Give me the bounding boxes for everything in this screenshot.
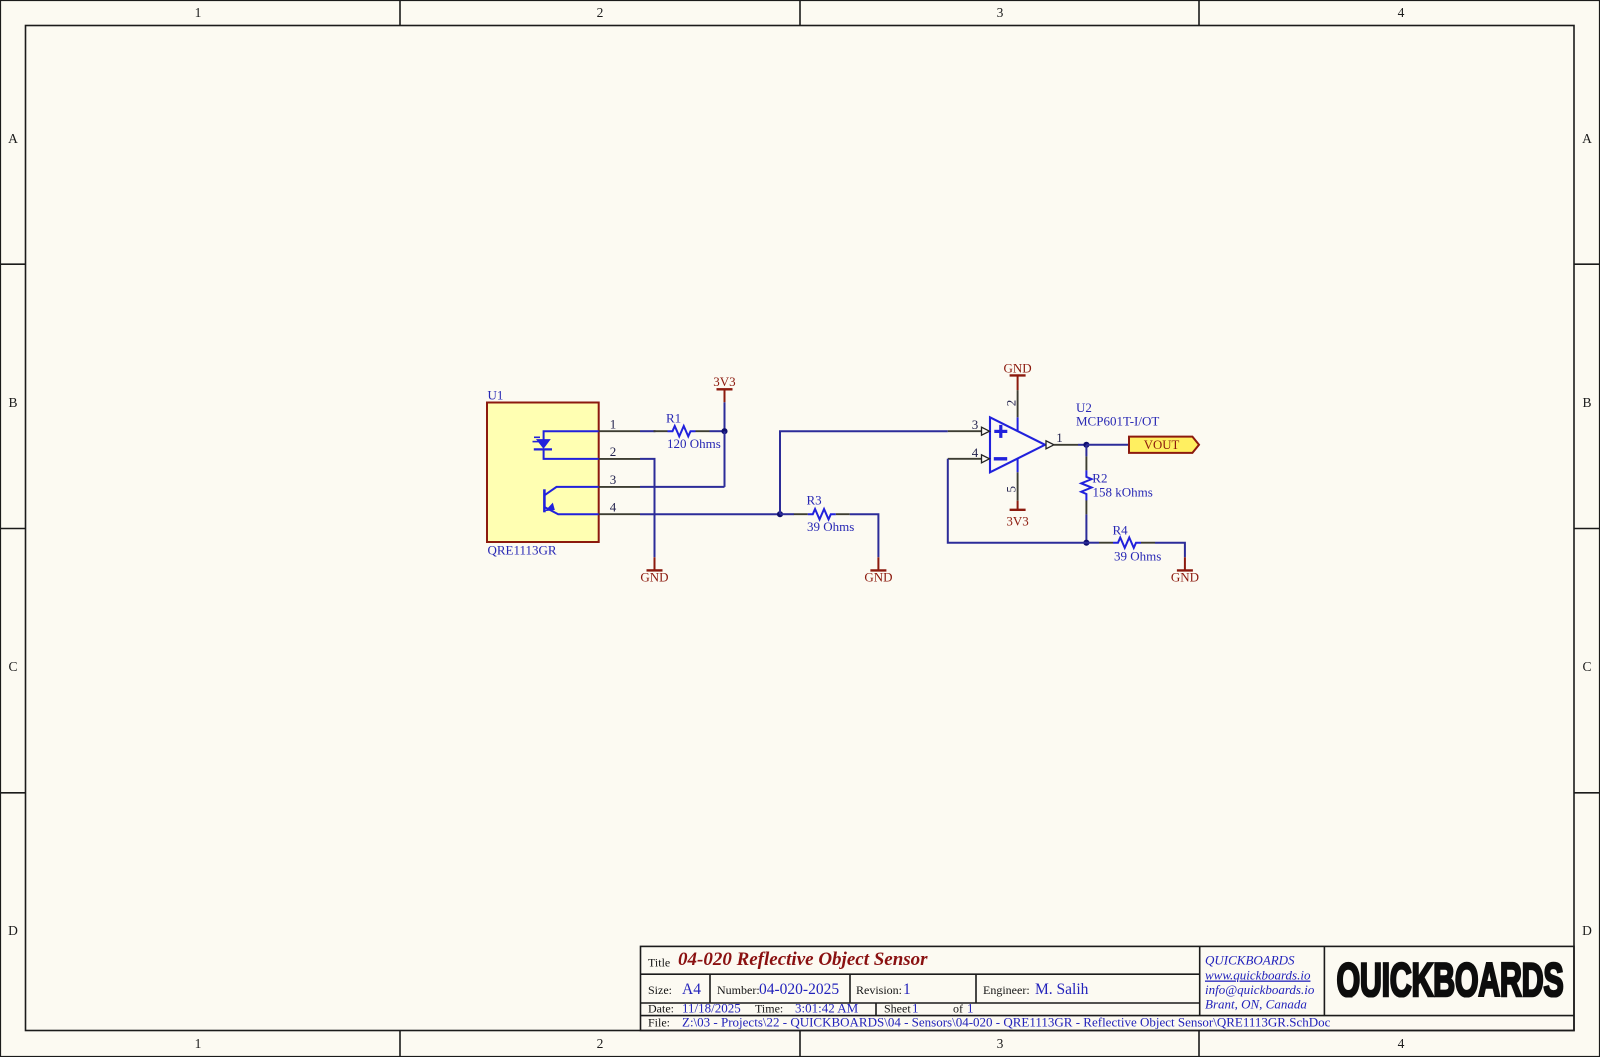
svg-text:U1: U1 — [488, 388, 504, 403]
svg-text:Time:: Time: — [755, 1002, 783, 1016]
junction node pin4/R3 — [777, 511, 783, 517]
op-amp U2 — [990, 417, 1045, 472]
LED emitter inside U1 — [533, 431, 599, 459]
U2 pin 3 (+ input) — [948, 417, 990, 435]
port VOUT — [1129, 437, 1199, 453]
svg-text:R2: R2 — [1092, 471, 1107, 486]
svg-text:D: D — [1582, 923, 1592, 938]
svg-text:A: A — [8, 131, 18, 146]
svg-text:R4: R4 — [1113, 522, 1129, 537]
svg-text:Title: Title — [648, 956, 670, 970]
junction node feedback — [1083, 540, 1089, 546]
wire junction to VOUT port — [1086, 444, 1129, 446]
svg-text:4: 4 — [1398, 5, 1405, 20]
svg-text:www.quickboards.io: www.quickboards.io — [1205, 968, 1311, 983]
junction node output — [1083, 442, 1089, 448]
svg-text:Brant, ON, Canada: Brant, ON, Canada — [1205, 997, 1307, 1012]
svg-text:04-020 Reflective Object Senso: 04-020 Reflective Object Sensor — [678, 949, 928, 970]
svg-text:D: D — [8, 923, 18, 938]
svg-text:of: of — [953, 1002, 963, 1016]
svg-text:A4: A4 — [682, 981, 701, 998]
wire R1 to node — [710, 430, 725, 432]
svg-text:1: 1 — [195, 5, 202, 20]
wire node to R3 — [780, 513, 794, 515]
svg-text:1: 1 — [610, 416, 617, 431]
svg-text:39 Ohms: 39 Ohms — [1114, 548, 1161, 563]
svg-text:GND: GND — [640, 570, 668, 585]
svg-text:1: 1 — [912, 1001, 919, 1016]
junction node R1/3V3 — [721, 428, 727, 434]
svg-text:R3: R3 — [807, 492, 822, 507]
svg-text:1: 1 — [967, 1001, 974, 1016]
svg-text:C: C — [8, 659, 17, 674]
wire pin3 horizontal — [640, 486, 725, 488]
svg-text:1: 1 — [903, 981, 911, 998]
svg-text:2: 2 — [1003, 400, 1018, 407]
svg-text:3V3: 3V3 — [713, 374, 735, 389]
svg-text:B: B — [8, 395, 17, 410]
resistor R1 — [654, 426, 710, 436]
svg-text:QRE1113GR: QRE1113GR — [488, 543, 557, 558]
wire junction to R4 — [1086, 542, 1099, 544]
power symbol 3V3 (top) — [713, 374, 735, 403]
wire junction down to R2 — [1085, 445, 1087, 457]
svg-text:5: 5 — [1003, 486, 1018, 493]
svg-text:3: 3 — [610, 472, 617, 487]
ground symbol GND (U1 pin2) — [640, 557, 668, 584]
wire 3V3 down to node — [724, 402, 726, 431]
wire pin4 to node — [640, 513, 780, 515]
svg-text:39 Ohms: 39 Ohms — [807, 519, 854, 534]
svg-text:File:: File: — [648, 1016, 670, 1030]
wire R4 to GND — [1155, 543, 1185, 558]
wire feedback to pin 4 — [948, 459, 1087, 543]
company info — [1205, 953, 1315, 1012]
svg-text:Z:\03 - Projects\22 - QUICKBOA: Z:\03 - Projects\22 - QUICKBOARDS\04 - S… — [682, 1015, 1331, 1030]
svg-text:R1: R1 — [666, 411, 681, 426]
phototransistor inside U1 — [544, 487, 598, 514]
U2 pin 4 (- input) — [948, 445, 990, 463]
svg-text:GND: GND — [864, 570, 892, 585]
ground symbol GND (R3) — [864, 557, 892, 584]
svg-text:Date:: Date: — [648, 1002, 674, 1016]
optocoupler U1 body — [487, 403, 599, 543]
wire R3 to GND — [850, 514, 879, 557]
svg-text:info@quickboards.io: info@quickboards.io — [1205, 982, 1315, 997]
svg-text:Sheet: Sheet — [884, 1002, 911, 1016]
wire pin1 to R1 — [640, 430, 656, 432]
U2 pin 1 (output) — [1046, 430, 1078, 449]
U2 pin 5 (bottom power pin) — [1003, 459, 1018, 501]
svg-text:3:01:42 AM: 3:01:42 AM — [795, 1001, 859, 1016]
svg-text:3: 3 — [997, 5, 1004, 20]
svg-text:1: 1 — [195, 1036, 202, 1051]
svg-text:QUICKBOARDS: QUICKBOARDS — [1205, 953, 1295, 968]
svg-text:04-020-2025: 04-020-2025 — [759, 981, 839, 998]
svg-text:Number:: Number: — [717, 983, 760, 997]
svg-text:3: 3 — [997, 1036, 1004, 1051]
svg-text:MCP601T-I/OT: MCP601T-I/OT — [1076, 414, 1159, 429]
svg-text:4: 4 — [972, 445, 979, 460]
svg-text:11/18/2025: 11/18/2025 — [682, 1001, 741, 1016]
svg-text:Size:: Size: — [648, 983, 672, 997]
wire node up and right to op-amp — [780, 431, 948, 514]
power symbol 3V3 (U2 pin5) — [1006, 501, 1028, 529]
U1 pin 2 — [599, 444, 640, 459]
U1 pin 4 — [599, 499, 640, 514]
U2 pin 2 (top power pin) — [1003, 390, 1018, 431]
U1 pin 3 — [599, 472, 640, 487]
wire pin2 to GND — [640, 459, 655, 557]
wire node down to pin3 level — [724, 431, 726, 487]
svg-text:GND: GND — [1171, 570, 1199, 585]
svg-text:C: C — [1582, 659, 1591, 674]
svg-text:4: 4 — [1398, 1036, 1405, 1051]
svg-text:B: B — [1582, 395, 1591, 410]
svg-text:3: 3 — [972, 417, 979, 432]
svg-text:VOUT: VOUT — [1144, 438, 1180, 452]
svg-text:2: 2 — [597, 5, 604, 20]
wire R2 down to junction — [1085, 514, 1087, 542]
svg-text:M. Salih: M. Salih — [1035, 981, 1089, 998]
svg-text:Engineer:: Engineer: — [983, 983, 1030, 997]
title block frame — [641, 946, 1575, 1030]
resistor R4 — [1099, 538, 1155, 548]
svg-text:GND: GND — [1004, 360, 1032, 375]
svg-text:158 kOhms: 158 kOhms — [1093, 484, 1153, 499]
svg-text:Revision:: Revision: — [856, 983, 902, 997]
svg-text:120 Ohms: 120 Ohms — [667, 436, 721, 451]
resistor R3 — [794, 509, 850, 519]
svg-text:2: 2 — [610, 444, 617, 459]
svg-text:2: 2 — [597, 1036, 604, 1051]
resistor R2 (vertical) — [1081, 456, 1091, 514]
U1 pin 1 — [599, 416, 640, 431]
svg-text:3V3: 3V3 — [1006, 514, 1028, 529]
wire output to junction — [1078, 444, 1086, 446]
svg-text:1: 1 — [1056, 430, 1063, 445]
ground symbol GND (R4) — [1171, 557, 1199, 584]
ground symbol GND (U2 pin2) — [1004, 360, 1032, 390]
svg-text:A: A — [1582, 131, 1592, 146]
svg-text:4: 4 — [610, 499, 617, 514]
